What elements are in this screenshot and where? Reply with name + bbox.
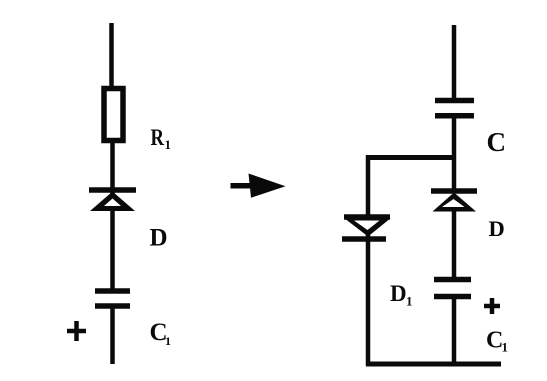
svg-text:1: 1 [165,137,172,152]
svg-text:1: 1 [165,334,171,348]
svg-text:R: R [151,125,165,150]
svg-text:D: D [489,216,505,241]
svg-text:1: 1 [502,340,509,355]
svg-text:1: 1 [406,294,413,309]
svg-text:C: C [487,127,507,157]
svg-text:D: D [150,225,168,252]
svg-text:D: D [390,281,407,306]
